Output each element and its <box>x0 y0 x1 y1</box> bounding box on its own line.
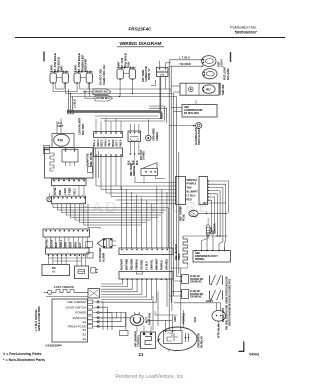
svg-text:FRS23F4C: FRS23F4C <box>129 27 153 32</box>
plug symbol <box>44 146 50 150</box>
svg-text:AU: AU <box>206 88 211 92</box>
harness feed 4 <box>111 196 176 198</box>
compressor feed wires <box>165 320 167 331</box>
svg-text:GRN: GRN <box>65 242 68 248</box>
svg-text:AMPLE SOUND BRD: AMPLE SOUND BRD <box>38 306 41 331</box>
harness feed 2 <box>101 189 176 191</box>
svg-text:PURPLE: PURPLE <box>161 260 164 270</box>
svg-text:TERM "A": TERM "A" <box>148 67 151 80</box>
left margin tick <box>43 52 45 62</box>
bus corner outer line <box>149 108 167 123</box>
svg-text:WIRING: WIRING <box>195 257 204 261</box>
supply wire V1 <box>168 60 170 330</box>
junction wire A <box>56 88 64 90</box>
fast freeze switch line <box>48 290 52 294</box>
svg-text:DEF THERMO: DEF THERMO <box>68 300 87 304</box>
svg-text:SWITCH SHOWN W/ DOOR CLOSED PO: SWITCH SHOWN W/ DOOR CLOSED POS <box>229 279 232 326</box>
bottom feed verticals <box>152 296 154 330</box>
svg-text:ORN 4: ORN 4 <box>104 139 107 147</box>
lamp group 2 drop wires <box>76 83 78 91</box>
evap fan motor <box>130 315 144 326</box>
relay box S2 <box>75 266 89 279</box>
svg-text:GRN: GRN <box>174 316 177 322</box>
defrost thermal fuse <box>189 210 198 216</box>
svg-text:FUSE: FUSE <box>183 214 186 221</box>
auger motor <box>203 85 216 94</box>
svg-text:WTR VALVE: WTR VALVE <box>218 323 221 338</box>
switch feed wires <box>177 276 182 278</box>
svg-text:FLNG NC: FLNG NC <box>190 276 200 278</box>
condenser fan motor box <box>52 134 74 148</box>
svg-text:E3: E3 <box>83 328 87 332</box>
harness feed 3 <box>106 192 176 194</box>
svg-text:TAN: TAN <box>187 187 192 190</box>
svg-text:PNK: PNK <box>59 190 62 195</box>
dispenser switch SW2 <box>182 290 189 299</box>
bus feed bundle <box>68 89 70 111</box>
bus drop wires <box>95 157 97 187</box>
right corner bundle <box>208 181 229 213</box>
svg-text:GRY 7: GRY 7 <box>117 139 119 146</box>
svg-text:SAME CIRC-13A: SAME CIRC-13A <box>102 65 106 85</box>
lamp socket group 3 <box>117 69 123 79</box>
svg-text:WIRING DIAGRAM: WIRING DIAGRAM <box>119 41 161 47</box>
svg-text:WHT/RED: WHT/RED <box>126 259 129 270</box>
overload arrow <box>158 339 160 341</box>
tag lead wires <box>83 91 93 93</box>
control box terminals <box>87 300 93 304</box>
relay drop wires <box>134 155 136 177</box>
svg-text:PURPLE: PURPLE <box>187 183 197 186</box>
svg-text:SA15W BCT: SA15W BCT <box>96 97 110 100</box>
wires into door switch box <box>171 85 180 87</box>
strip T3 drops <box>45 237 47 248</box>
supply wire V3 <box>173 96 175 296</box>
voltage arrow tag 2 <box>95 95 113 101</box>
terminal strip T2 <box>52 196 86 204</box>
svg-text:TAN: TAN <box>193 317 197 322</box>
tag box lower <box>87 253 93 259</box>
svg-text:+5: +5 <box>52 269 56 273</box>
svg-text:DOOR SWITCH: DOOR SWITCH <box>66 305 86 309</box>
svg-text:FROZEN NO: FROZEN NO <box>190 294 203 296</box>
grey wire <box>174 302 214 304</box>
ground bus bar <box>67 112 161 120</box>
ground screw <box>147 120 149 135</box>
harness feed 5 <box>116 199 176 201</box>
under-bus wire 1 <box>101 118 162 120</box>
harness feed 1 <box>96 185 176 187</box>
fan feed wires <box>136 326 138 333</box>
header rule <box>15 37 285 39</box>
cold control assembly box <box>45 148 94 179</box>
lamp socket group 2 <box>74 73 80 83</box>
alarm buzzer <box>97 239 103 248</box>
tag S2 <box>91 268 96 274</box>
svg-text:HOT: HOT <box>58 124 64 128</box>
svg-text:WHT: WHT <box>70 242 73 248</box>
junction bar J2 <box>94 148 123 157</box>
svg-text:WHT 2: WHT 2 <box>98 139 100 147</box>
heater top wire <box>183 235 228 237</box>
svg-text:CRSHD NC: CRSHD NC <box>190 282 202 284</box>
wire connector block CN1 <box>157 67 169 76</box>
svg-text:YEL/RED: YEL/RED <box>141 259 144 270</box>
dispenser box top stub <box>224 247 226 251</box>
svg-text:ORN/BLK: ORN/BLK <box>136 259 139 270</box>
svg-text:* = Non-Illustrated Parts: * = Non-Illustrated Parts <box>3 358 45 362</box>
svg-text:BRN/WHT: BRN/WHT <box>156 258 159 270</box>
under-bus wire 2 <box>104 120 164 122</box>
svg-text:PNK 8: PNK 8 <box>120 139 122 146</box>
corner bracket <box>239 342 244 352</box>
strip T4 drop wires <box>48 254 50 265</box>
svg-text:RED 3: RED 3 <box>102 139 104 146</box>
svg-text:FAST FREEZE: FAST FREEZE <box>54 285 74 289</box>
supply wire V6 <box>180 268 182 330</box>
terminal strip T3 <box>43 229 90 237</box>
svg-text:W/ RELAY: W/ RELAY <box>201 336 204 348</box>
svg-text:Rendered by LeadVenture, Inc.: Rendered by LeadVenture, Inc. <box>115 374 184 380</box>
svg-text:RED: RED <box>187 198 192 201</box>
svg-text:SND INS: SND INS <box>221 84 225 95</box>
freezer light lamp <box>203 69 217 79</box>
under-bus wire 3 <box>95 115 158 117</box>
defrost heater <box>183 236 188 265</box>
svg-text:J-BLK: J-BLK <box>64 188 67 195</box>
T6 fanout deep drops <box>167 279 172 311</box>
svg-text:240VAC S16: 240VAC S16 <box>94 91 108 94</box>
terminal strip T4 <box>46 248 90 254</box>
svg-text:RED/GRN: RED/GRN <box>131 259 134 270</box>
cb wire extra <box>100 302 127 331</box>
condenser fan motor <box>54 134 70 146</box>
svg-text:14 AWG: 14 AWG <box>143 151 146 160</box>
dispenser light lamp <box>202 56 216 67</box>
svg-text:WHT: WHT <box>60 65 64 72</box>
wire to dispenser light <box>170 59 202 61</box>
svg-text:SENSOR: SENSOR <box>213 223 216 234</box>
svg-text:ORN 1: ORN 1 <box>60 240 63 248</box>
wire below harness <box>204 202 226 204</box>
svg-text:POWER: POWER <box>75 311 86 315</box>
defrost timer in box <box>62 150 78 163</box>
svg-text:CRSHD NC: CRSHD NC <box>190 297 202 299</box>
dispenser switch SW1 <box>182 275 189 284</box>
bundle verticals lower <box>225 213 226 251</box>
dispenser note box <box>193 251 231 263</box>
svg-text:ORN/YEL: ORN/YEL <box>187 179 198 182</box>
aux small rect <box>120 331 129 336</box>
right margin tick <box>230 52 232 62</box>
alarm connector circle <box>170 125 196 127</box>
svg-text:450W: 450W <box>178 253 181 260</box>
bus left connector <box>68 110 74 114</box>
svg-text:21: 21 <box>139 352 144 357</box>
aux rect right <box>88 167 93 173</box>
fast freeze box <box>88 289 100 299</box>
T1-T2 link wires <box>53 186 55 197</box>
svg-text:A+YEL: A+YEL <box>54 187 57 195</box>
defrost switch <box>141 169 158 176</box>
svg-text:GRY/RED: GRY/RED <box>166 259 169 270</box>
svg-text:BRN: BRN <box>74 242 77 247</box>
terminal strip T1 <box>52 179 87 186</box>
wires into compressor note box <box>171 107 182 109</box>
thermostat zigzag <box>50 153 54 171</box>
supply wire V5 <box>178 152 180 275</box>
svg-text:L1 BLK: L1 BLK <box>74 99 77 108</box>
signal box S1 <box>42 265 70 276</box>
svg-text:L.T. BLU: L.T. BLU <box>179 56 190 60</box>
connector strip T5 <box>119 248 173 255</box>
junction wire D <box>71 97 177 100</box>
svg-text:W/ PHS (PG): W/ PHS (PG) <box>184 111 199 115</box>
lamp group 3 drop wires <box>119 79 121 96</box>
connector strip T6 <box>119 272 173 280</box>
svg-text:# = Fast-moving Parts: # = Fast-moving Parts <box>3 352 41 356</box>
harness connector left <box>176 177 186 205</box>
compressor note box <box>182 105 217 118</box>
svg-text:EVAP FAN: EVAP FAN <box>148 313 151 325</box>
door switch box <box>180 83 219 95</box>
lamp group 1 drop wires <box>52 83 54 91</box>
heater bottom wire <box>187 266 189 268</box>
junction bar J1 <box>94 132 123 138</box>
svg-text:YEL 5: YEL 5 <box>109 139 111 146</box>
junction wire C <box>65 94 173 97</box>
mesh extra 1 <box>88 204 100 229</box>
svg-text:NO LENS: NO LENS <box>226 68 230 80</box>
svg-text:04/03: 04/03 <box>249 352 260 357</box>
svg-text:GREEN: GREEN <box>156 132 159 141</box>
svg-text:5995360037: 5995360037 <box>235 30 258 35</box>
relay box B2 <box>128 131 141 142</box>
svg-text:LT. BLU: LT. BLU <box>187 194 196 197</box>
lamp socket group 1 <box>50 73 56 83</box>
control box <box>52 299 88 342</box>
svg-text:BLK: BLK <box>137 160 139 165</box>
supply wire V4 <box>176 99 178 277</box>
svg-text:T-RED: T-RED <box>69 188 72 195</box>
svg-text:E4 T: E4 T <box>79 242 82 248</box>
svg-text:RED/WHT: RED/WHT <box>84 58 88 71</box>
svg-text:BLK WHT: BLK WHT <box>82 123 85 135</box>
control box output wires <box>100 302 104 330</box>
svg-text:TAN: TAN <box>127 62 131 68</box>
tag box left of buzzer <box>86 242 93 248</box>
svg-text:E1: E1 <box>83 320 87 324</box>
supply wire V2 <box>170 66 172 302</box>
svg-text:CONTROL: CONTROL <box>137 334 140 347</box>
T6 fan-out harness <box>101 279 123 284</box>
svg-text:M: M <box>60 139 63 143</box>
bus corner inner line <box>149 106 164 121</box>
compressor motor <box>158 327 197 351</box>
svg-text:LIGHT: LIGHT <box>220 59 224 67</box>
svg-text:FLNG NC: FLNG NC <box>190 291 200 293</box>
svg-text:BLK 1: BLK 1 <box>94 139 96 146</box>
junction wire B <box>53 91 77 93</box>
svg-text:FROZEN NO: FROZEN NO <box>190 279 203 281</box>
overload protector <box>142 332 156 346</box>
svg-text:E2: E2 <box>83 332 87 336</box>
svg-text:E4: E4 <box>83 337 87 341</box>
svg-text:ALARM: ALARM <box>102 253 105 262</box>
right verticals of box <box>95 148 97 178</box>
svg-text:BLU/WHT: BLU/WHT <box>187 191 199 194</box>
svg-text:GAS3S33F#*: GAS3S33F#* <box>46 344 64 348</box>
voltage arrow tag 1 <box>93 89 111 95</box>
svg-text:RED: RED <box>55 242 58 247</box>
wire to freezer light <box>170 65 203 67</box>
svg-text:BLK/WHT: BLK/WHT <box>121 258 124 270</box>
svg-text:YEL/RED: YEL/RED <box>179 62 191 66</box>
harness feed top <box>135 182 176 184</box>
timer box <box>141 332 156 349</box>
evaporator thermistor <box>206 225 210 236</box>
water valve <box>212 310 225 321</box>
svg-text:GRN/YEL: GRN/YEL <box>151 259 154 270</box>
harness connector right <box>199 177 208 205</box>
svg-text:YEL 1: YEL 1 <box>74 188 77 195</box>
ground symbol G2 <box>47 197 52 202</box>
svg-text:BRN 6: BRN 6 <box>113 139 115 147</box>
svg-text:PURPLE: PURPLE <box>182 313 186 324</box>
svg-text:SWITCH ASSY: SWITCH ASSY <box>198 127 201 145</box>
middle wire mesh <box>53 204 169 208</box>
svg-text:DEF CNTRL: DEF CNTRL <box>90 151 93 166</box>
harness feed 6 <box>121 203 176 205</box>
condenser fan drop wires <box>56 121 58 134</box>
svg-text:LT. BLU: LT. BLU <box>146 261 149 270</box>
wire bundle from CN1 <box>159 77 161 111</box>
